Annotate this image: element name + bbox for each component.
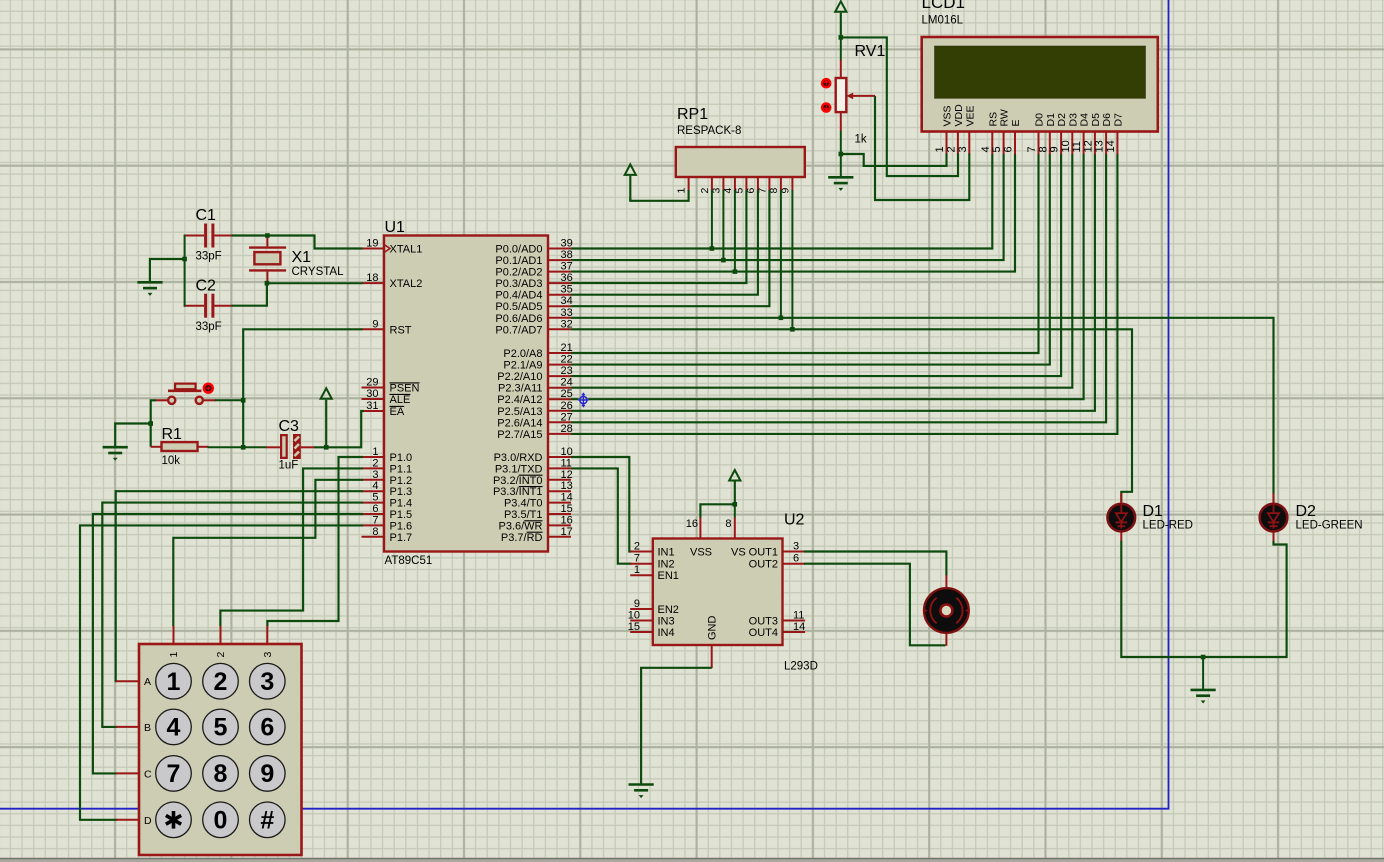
U1 XTAL1 clock notch — [384, 245, 390, 253]
svg-text:D: D — [144, 815, 152, 827]
pushbutton RESET — [155, 399, 167, 401]
svg-text:C: C — [144, 768, 152, 780]
wire P0.6 to LED D2 — [571, 318, 1274, 502]
svg-text:P3.1/TXD: P3.1/TXD — [495, 463, 543, 475]
svg-text:P2.5/A13: P2.5/A13 — [497, 406, 542, 418]
svg-text:9: 9 — [372, 318, 378, 330]
junction RP1 pin9-P0.7 — [790, 327, 795, 332]
svg-text:14: 14 — [561, 492, 573, 504]
svg-text:LED-GREEN: LED-GREEN — [1296, 520, 1363, 532]
pot RV1 up button — [822, 79, 830, 87]
svg-text:D1: D1 — [1143, 503, 1164, 520]
svg-text:LED-RED: LED-RED — [1143, 520, 1193, 532]
svg-text:P0.7/AD7: P0.7/AD7 — [495, 324, 542, 336]
svg-text:7: 7 — [1026, 146, 1038, 152]
junction RP1 pin3-P0.1 — [721, 258, 726, 263]
svg-text:4: 4 — [980, 146, 992, 152]
motor — [945, 575, 947, 588]
ic U1 body — [384, 236, 548, 552]
svg-text:7: 7 — [167, 760, 181, 788]
wire VCC to LCD VDD — [841, 37, 958, 176]
keypad button 1 — [156, 663, 192, 699]
svg-text:10: 10 — [628, 610, 640, 622]
svg-text:P1.1: P1.1 — [390, 463, 413, 475]
crystal X1 — [249, 246, 286, 248]
wire RP1 pin3 — [722, 190, 724, 260]
svg-text:D0: D0 — [1034, 113, 1046, 127]
U2 right pins — [783, 551, 806, 553]
wire P1.5 to keypad rowC — [93, 514, 363, 773]
wire P1.0 to keypad col3 — [267, 457, 363, 627]
svg-text:D2: D2 — [1056, 113, 1068, 127]
junction button-gnd — [148, 421, 153, 426]
wire RV1 bottom — [840, 131, 842, 177]
keypad body with pins — [139, 644, 302, 855]
svg-text:15: 15 — [628, 621, 640, 633]
window bottom edge — [0, 858, 1384, 862]
svg-text:OUT2: OUT2 — [749, 559, 778, 571]
wire U2 GND — [641, 668, 712, 784]
wire P2.5 to LCD D5 — [571, 154, 1095, 411]
svg-text:36: 36 — [561, 272, 573, 284]
wire crystal to XTAL2 — [267, 282, 363, 284]
svg-text:P3.2/INT0: P3.2/INT0 — [493, 475, 543, 487]
svg-text:P3.4/T0: P3.4/T0 — [504, 498, 543, 510]
svg-text:11: 11 — [1071, 141, 1083, 152]
svg-text:12: 12 — [561, 469, 573, 481]
keypad button 0 — [203, 802, 239, 838]
svg-text:14: 14 — [793, 621, 805, 633]
wire P3.0 to U2 IN1 — [571, 457, 632, 552]
svg-text:15: 15 — [561, 503, 573, 515]
sheet border — [0, 0, 1169, 809]
wire button left to gnd — [151, 400, 156, 447]
svg-text:3: 3 — [262, 652, 274, 658]
ground crystal — [137, 281, 162, 284]
wire C3 to EA — [314, 411, 364, 447]
svg-text:3: 3 — [957, 146, 969, 152]
svg-text:13: 13 — [1094, 140, 1106, 152]
ground RV1 — [828, 176, 853, 179]
junction RP1 pin8-P0.6 — [779, 316, 784, 321]
lcd LCD1 pins with labels — [946, 132, 948, 155]
svg-text:RP1: RP1 — [677, 106, 708, 123]
svg-text:IN4: IN4 — [658, 627, 675, 639]
svg-text:38: 38 — [561, 249, 573, 261]
svg-text:P2.1/A9: P2.1/A9 — [503, 360, 542, 372]
junction crystal bottom — [265, 281, 270, 286]
svg-text:RESPACK-8: RESPACK-8 — [677, 125, 741, 137]
junction RP1 pin2-P0.0 — [710, 246, 715, 251]
wire C1 to XTAL1 — [232, 236, 363, 249]
keypad button 3 — [249, 663, 285, 699]
svg-text:P0.6/AD6: P0.6/AD6 — [495, 313, 542, 325]
svg-text:4: 4 — [167, 714, 181, 742]
led D1 — [1120, 493, 1122, 504]
svg-text:31: 31 — [366, 400, 378, 412]
U2 top pins — [699, 517, 701, 539]
keypad button 6 — [249, 709, 285, 745]
svg-text:XTAL1: XTAL1 — [390, 244, 423, 256]
svg-text:U2: U2 — [784, 512, 805, 529]
svg-text:21: 21 — [561, 342, 573, 354]
svg-text:E: E — [1010, 119, 1022, 126]
svg-text:28: 28 — [561, 423, 573, 435]
wire D1 cathode — [1121, 541, 1203, 657]
svg-text:EN1: EN1 — [658, 570, 679, 582]
wire P1.4 to keypad rowB — [102, 503, 363, 727]
svg-text:26: 26 — [561, 400, 573, 412]
svg-text:8: 8 — [214, 760, 228, 788]
resistor R1 — [151, 446, 162, 448]
svg-text:18: 18 — [366, 272, 378, 284]
svg-text:XTAL2: XTAL2 — [390, 278, 423, 290]
svg-text:VEE: VEE — [964, 105, 976, 126]
ic U2 body — [653, 539, 783, 646]
svg-text:RS: RS — [987, 112, 999, 127]
junction C3-vcc — [324, 445, 329, 450]
svg-text:P2.7/A15: P2.7/A15 — [497, 429, 542, 441]
ground LEDs — [1191, 689, 1216, 692]
wire OUT1 to motor — [804, 552, 946, 576]
svg-text:24: 24 — [561, 377, 573, 389]
svg-text:29: 29 — [366, 377, 378, 389]
svg-text:35: 35 — [561, 284, 573, 296]
led D2 — [1273, 493, 1275, 504]
svg-text:1: 1 — [676, 188, 688, 194]
svg-text:9: 9 — [1049, 146, 1061, 152]
svg-text:4: 4 — [372, 480, 378, 492]
svg-text:30: 30 — [366, 388, 378, 400]
wire P2.0 to LCD D0 — [571, 154, 1039, 353]
wire RV1 to LCD VSS — [841, 154, 947, 166]
svg-text:1: 1 — [168, 652, 180, 658]
svg-text:2: 2 — [215, 652, 227, 658]
U1 right pins with numbers — [548, 248, 571, 250]
svg-text:IN3: IN3 — [658, 616, 675, 628]
svg-text:23: 23 — [561, 365, 573, 377]
svg-text:19: 19 — [366, 238, 378, 250]
svg-text:P2.2/A10: P2.2/A10 — [497, 371, 542, 383]
svg-text:D2: D2 — [1296, 503, 1317, 520]
svg-text:33: 33 — [561, 307, 573, 319]
wire P2.3 to LCD D3 — [571, 154, 1072, 388]
svg-text:VSS: VSS — [690, 547, 712, 559]
svg-text:PSEN: PSEN — [390, 383, 420, 395]
wire P0.2 to LCD E — [571, 154, 1015, 272]
junction R1-RST — [241, 445, 246, 450]
capacitor C3 — [266, 446, 280, 448]
svg-text:C3: C3 — [279, 418, 300, 435]
svg-text:P3.7/RD: P3.7/RD — [501, 532, 543, 544]
svg-text:P1.6: P1.6 — [390, 520, 413, 532]
svg-text:VSS: VSS — [942, 105, 954, 126]
svg-text:R1: R1 — [162, 426, 183, 443]
svg-text:1uF: 1uF — [279, 460, 299, 472]
wire P3.1 to U2 IN2 — [571, 468, 632, 563]
svg-text:10: 10 — [1060, 140, 1072, 152]
wire RP1 pin4 — [734, 190, 736, 272]
wire LED gnd — [1202, 657, 1204, 689]
svg-text:6: 6 — [1003, 146, 1015, 152]
svg-text:P0.5/AD5: P0.5/AD5 — [495, 301, 542, 313]
wire P0.1 to LCD RW — [571, 154, 1004, 260]
svg-text:P1.0: P1.0 — [390, 452, 413, 464]
svg-text:P3.6/WR: P3.6/WR — [498, 520, 542, 532]
wire P2.7 to LCD D7 — [571, 154, 1117, 434]
svg-text:8: 8 — [725, 518, 731, 530]
svg-text:8: 8 — [372, 526, 378, 538]
svg-text:GND: GND — [707, 616, 719, 641]
svg-text:9: 9 — [260, 760, 274, 788]
wire button right — [215, 399, 244, 401]
svg-text:1: 1 — [934, 146, 946, 152]
power vcc reset — [321, 388, 332, 399]
svg-text:U1: U1 — [385, 219, 406, 236]
wire RV1 top — [840, 37, 842, 60]
svg-text:D5: D5 — [1090, 113, 1102, 127]
svg-text:C1: C1 — [196, 207, 217, 224]
capacitor C2 — [184, 305, 204, 307]
wire RP1 pin9 — [791, 190, 793, 329]
svg-text:16: 16 — [561, 514, 573, 526]
wire P1.6 to keypad rowD — [80, 525, 363, 819]
potentiometer RV1 — [840, 60, 842, 78]
svg-text:9: 9 — [634, 598, 640, 610]
svg-text:32: 32 — [561, 318, 573, 330]
svg-text:P3.0/RXD: P3.0/RXD — [494, 452, 543, 464]
power vcc U2 — [729, 470, 740, 481]
resistor-pack RP1 body with pins — [676, 147, 805, 177]
lcd LCD1 body — [922, 37, 1158, 132]
wire RP1 pin6 to P0.4 — [571, 190, 758, 295]
svg-text:VDD: VDD — [953, 104, 965, 127]
svg-text:1: 1 — [167, 668, 181, 696]
svg-text:D6: D6 — [1101, 113, 1113, 127]
svg-text:P1.2: P1.2 — [390, 475, 413, 487]
svg-text:3: 3 — [260, 668, 274, 696]
svg-text:P1.5: P1.5 — [390, 509, 413, 521]
wire RP1 pin7 to P0.5 — [571, 190, 769, 306]
svg-text:L293D: L293D — [784, 661, 818, 673]
svg-text:VS: VS — [731, 547, 746, 559]
svg-text:LM016L: LM016L — [922, 15, 964, 27]
U1 left pins with numbers — [362, 248, 385, 250]
power vcc RP1 — [625, 164, 636, 175]
keypad button 7 — [156, 756, 192, 792]
keypad button 4 — [156, 709, 192, 745]
wire R1 to C3 — [208, 446, 267, 448]
svg-text:P1.7: P1.7 — [390, 532, 413, 544]
lcd LCD1 screen — [935, 46, 1146, 98]
svg-text:5: 5 — [214, 714, 228, 742]
svg-text:2: 2 — [372, 457, 378, 469]
pushbutton indicator — [204, 384, 213, 393]
svg-text:RV1: RV1 — [855, 43, 886, 60]
svg-text:7: 7 — [634, 553, 640, 565]
svg-text:37: 37 — [561, 261, 573, 273]
svg-text:11: 11 — [561, 457, 572, 469]
svg-text:2: 2 — [214, 668, 228, 696]
svg-text:33pF: 33pF — [196, 321, 222, 333]
U2 GND pin — [711, 645, 713, 668]
ground U2 — [629, 783, 654, 786]
svg-text:16: 16 — [686, 518, 698, 530]
junction U2 VS — [733, 502, 738, 507]
svg-text:P3.5/T1: P3.5/T1 — [504, 509, 543, 521]
svg-text:D7: D7 — [1112, 113, 1124, 127]
svg-text:CRYSTAL: CRYSTAL — [292, 266, 345, 278]
svg-text:X1: X1 — [292, 249, 312, 266]
wire P2.4 to LCD D4 — [571, 154, 1084, 399]
svg-text:LCD1: LCD1 — [922, 0, 965, 12]
svg-text:5: 5 — [991, 146, 1003, 152]
svg-text:7: 7 — [372, 514, 378, 526]
U2 left pins — [630, 551, 653, 553]
svg-text:AT89C51: AT89C51 — [385, 555, 433, 567]
wire U2 VSS to vcc — [700, 504, 734, 517]
wire C2 to crystal bottom — [232, 283, 267, 306]
wire P2.2 to LCD D2 — [571, 154, 1061, 376]
svg-text:RST: RST — [390, 324, 412, 336]
wire P2.1 to LCD D1 — [571, 154, 1050, 365]
wire P1.1 to keypad col2 — [220, 468, 363, 626]
svg-text:1: 1 — [372, 446, 378, 458]
svg-text:ALE: ALE — [390, 394, 411, 406]
junction RV1 top — [839, 35, 844, 40]
svg-text:P2.6/A14: P2.6/A14 — [497, 417, 542, 429]
wire P2.6 to LCD D6 — [571, 154, 1106, 422]
svg-text:34: 34 — [561, 295, 573, 307]
svg-text:IN1: IN1 — [658, 547, 675, 559]
junction C1C2-gnd — [182, 257, 187, 262]
svg-text:8: 8 — [1037, 146, 1049, 152]
svg-text:D1: D1 — [1045, 113, 1057, 127]
svg-text:10: 10 — [561, 446, 573, 458]
cursor crosshair — [578, 394, 588, 406]
power vcc RV1 — [835, 1, 846, 12]
keypad button 5 — [203, 709, 239, 745]
wire gnd branch — [115, 424, 151, 447]
keypad button 2 — [203, 663, 239, 699]
svg-text:C2: C2 — [196, 278, 217, 295]
svg-text:17: 17 — [561, 526, 573, 538]
svg-text:B: B — [144, 722, 151, 734]
wire C1-C2 left vertical — [184, 235, 186, 307]
wire P1.3 to keypad rowA — [116, 491, 363, 681]
wire P0.0 to LCD RS — [571, 154, 992, 249]
wire D2 cathode — [1203, 541, 1287, 657]
junction LED gnd — [1201, 655, 1206, 660]
svg-text:OUT3: OUT3 — [749, 616, 778, 628]
junction RV1 bottom — [839, 152, 844, 157]
keypad button # — [249, 802, 285, 838]
svg-text:25: 25 — [561, 388, 573, 400]
svg-text:EN2: EN2 — [658, 604, 679, 616]
svg-text:P0.4/AD4: P0.4/AD4 — [495, 290, 542, 302]
svg-text:1: 1 — [634, 564, 640, 576]
wire RP1 pin5 to P0.3 — [571, 190, 746, 283]
svg-text:P0.2/AD2: P0.2/AD2 — [495, 267, 542, 279]
svg-text:IN2: IN2 — [658, 559, 675, 571]
svg-text:2: 2 — [699, 188, 711, 194]
svg-text:D3: D3 — [1067, 113, 1079, 127]
keypad button 9 — [249, 756, 285, 792]
wire RP1 pin1 to vcc — [630, 190, 688, 201]
capacitor C1 — [184, 235, 204, 237]
wire P1.2 to keypad col1 — [173, 480, 363, 627]
keypad button * — [156, 802, 192, 838]
svg-text:3: 3 — [793, 541, 799, 553]
svg-text:RW: RW — [999, 109, 1011, 126]
svg-text:33pF: 33pF — [196, 251, 222, 263]
keypad button 8 — [203, 756, 239, 792]
svg-text:P2.3/A11: P2.3/A11 — [498, 383, 542, 395]
svg-text:11: 11 — [793, 610, 804, 622]
svg-text:A: A — [144, 676, 151, 688]
svg-text:6: 6 — [793, 553, 799, 565]
pot RV1 down button — [822, 104, 830, 112]
svg-text:10k: 10k — [162, 455, 181, 467]
svg-text:39: 39 — [561, 238, 573, 250]
wire RP1 pin2 — [711, 190, 713, 249]
wire RST net — [243, 329, 362, 447]
svg-text:#: # — [260, 807, 274, 835]
svg-text:12: 12 — [1082, 140, 1094, 152]
junction RP1 pin4-P0.2 — [733, 269, 738, 274]
svg-text:P0.0/AD0: P0.0/AD0 — [495, 244, 542, 256]
wire U2 VS — [734, 504, 736, 517]
junction button-RST — [241, 398, 246, 403]
junction crystal top — [265, 233, 270, 238]
wire P0.7 to LED D1 — [571, 329, 1132, 502]
svg-text:6: 6 — [260, 714, 274, 742]
ground reset — [103, 446, 128, 449]
svg-text:P3.3/INT1: P3.3/INT1 — [493, 486, 543, 498]
svg-text:D4: D4 — [1079, 113, 1091, 127]
svg-text:P1.4: P1.4 — [390, 498, 413, 510]
svg-text:6: 6 — [372, 503, 378, 515]
svg-text:1k: 1k — [855, 134, 867, 146]
svg-text:13: 13 — [561, 480, 573, 492]
svg-text:OUT4: OUT4 — [749, 627, 778, 639]
svg-text:5: 5 — [372, 492, 378, 504]
svg-text:P0.1/AD1: P0.1/AD1 — [495, 255, 542, 267]
svg-text:EA: EA — [390, 406, 405, 418]
wire RP1 pin8 — [780, 190, 782, 318]
svg-text:0: 0 — [214, 807, 228, 835]
svg-text:14: 14 — [1105, 140, 1117, 152]
svg-text:3: 3 — [372, 469, 378, 481]
svg-text:27: 27 — [561, 411, 573, 423]
wire OUT2 to motor — [804, 564, 945, 646]
wire RV1 wiper to LCD VEE — [875, 96, 969, 200]
wire to crystal ground — [150, 259, 185, 282]
svg-text:2: 2 — [945, 146, 957, 152]
svg-text:22: 22 — [561, 354, 573, 366]
svg-text:P1.3: P1.3 — [390, 486, 413, 498]
svg-text:OUT1: OUT1 — [749, 547, 778, 559]
svg-text:2: 2 — [634, 541, 640, 553]
svg-text:P2.4/A12: P2.4/A12 — [497, 394, 542, 406]
svg-text:P2.0/A8: P2.0/A8 — [503, 348, 542, 360]
svg-text:P0.3/AD3: P0.3/AD3 — [495, 278, 542, 290]
